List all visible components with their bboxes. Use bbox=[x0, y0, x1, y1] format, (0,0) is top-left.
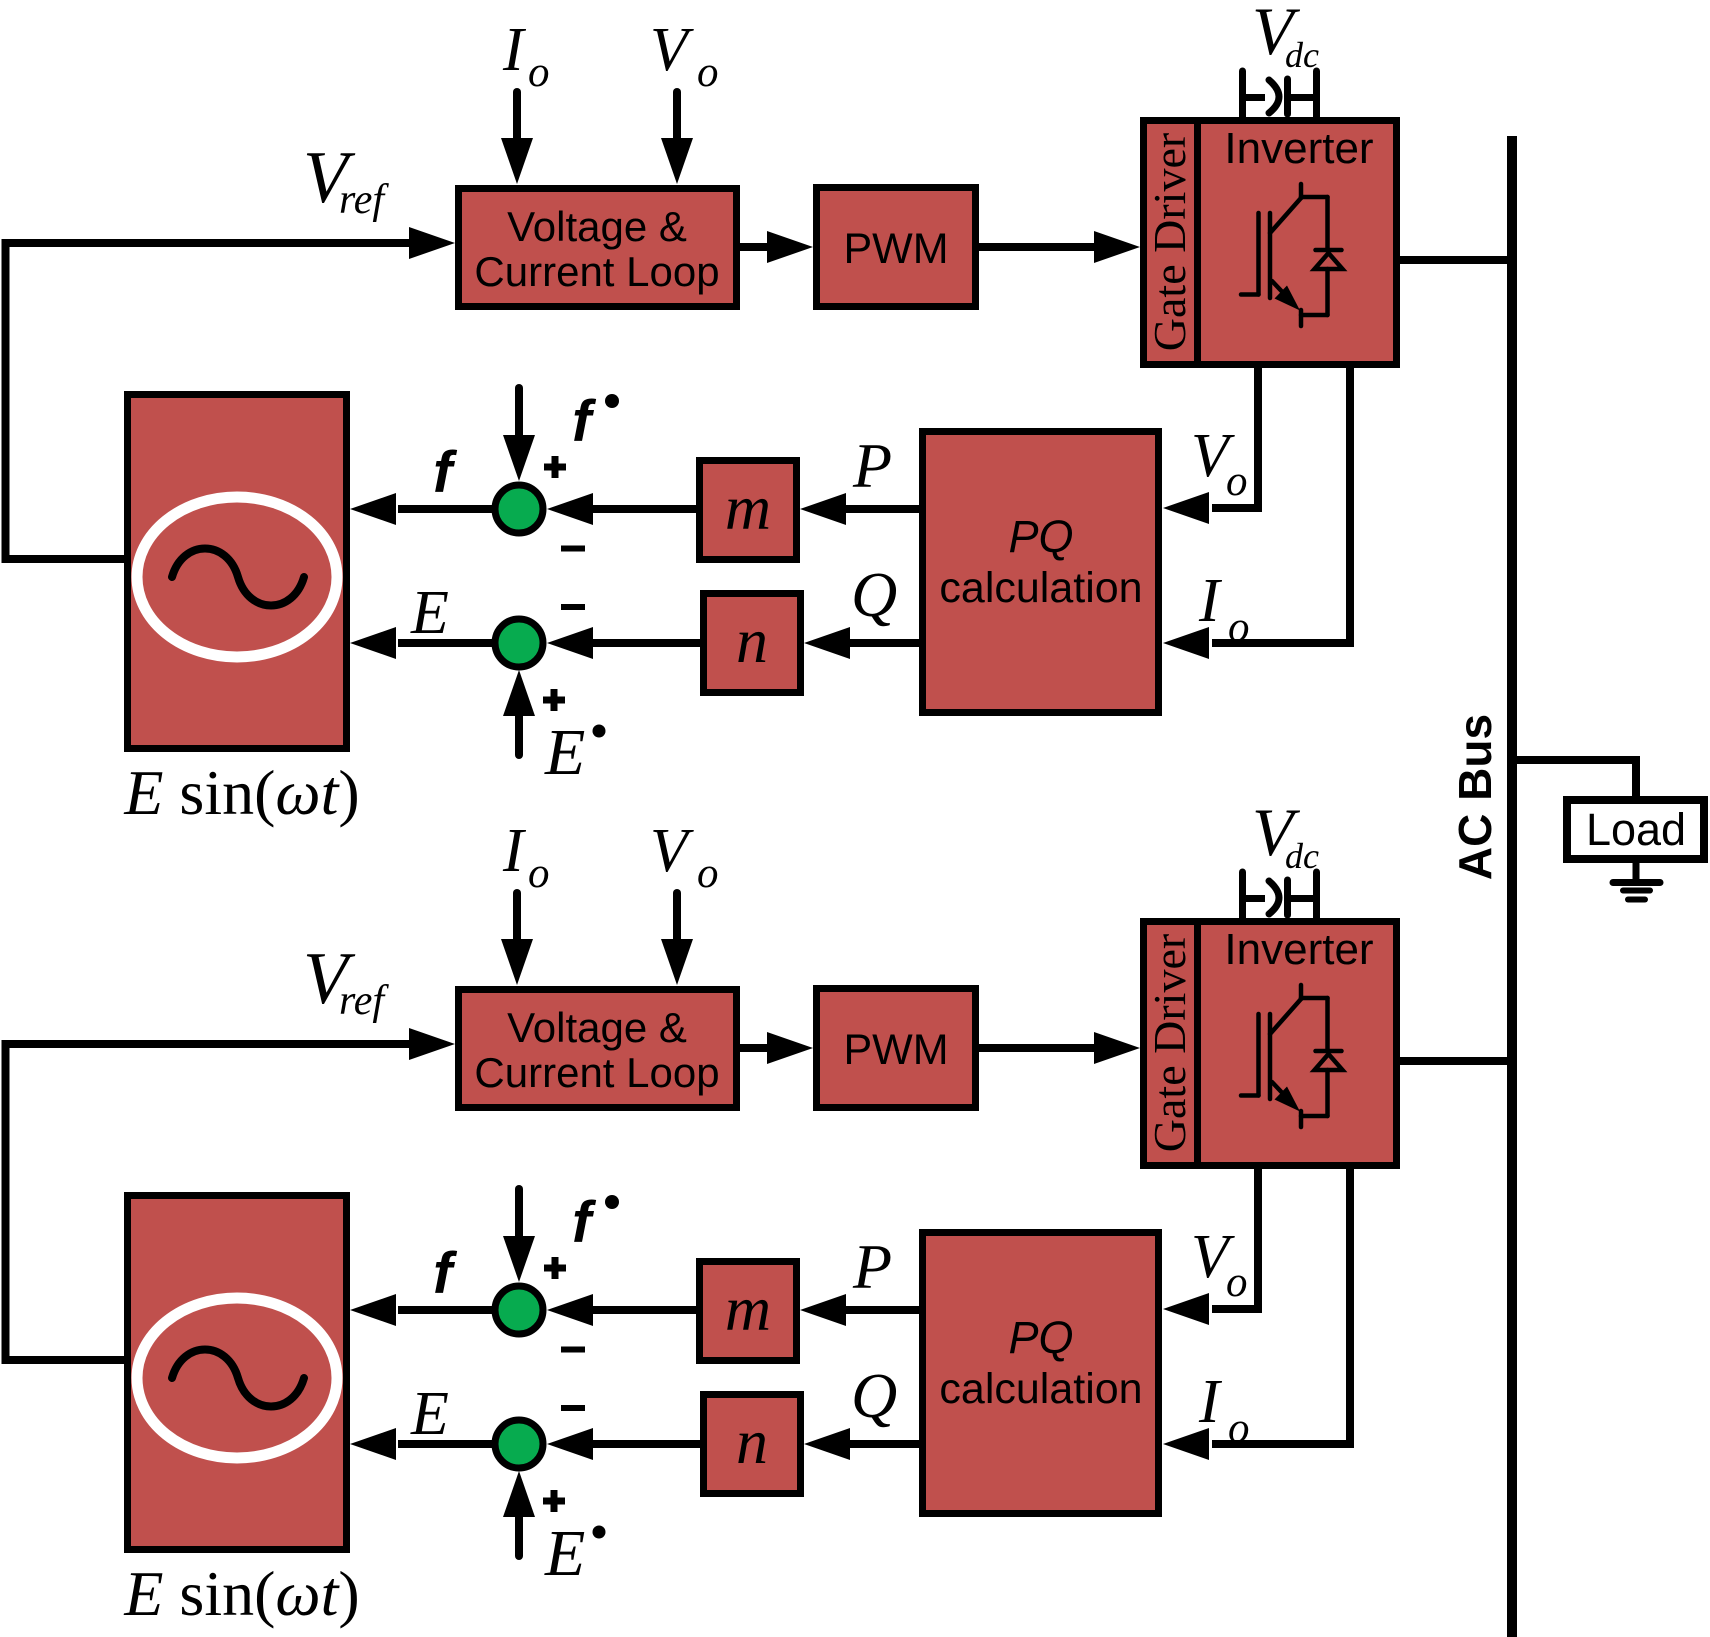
diode D2 triangle bbox=[1315, 1054, 1343, 1070]
svg-text:calculation: calculation bbox=[939, 564, 1142, 612]
plus sign at frequency summer 2 bbox=[544, 1257, 566, 1279]
wire P from PQ calculation to m (inverter 1) bbox=[845, 505, 922, 513]
arrowhead f into source block 2 bbox=[350, 1294, 396, 1326]
transistor IGBT Q2 gate lead bbox=[1241, 1093, 1259, 1098]
arrowhead E-star into summer 1 bbox=[503, 670, 535, 716]
svg-text:Current Loop: Current Loop bbox=[474, 1049, 719, 1096]
arrowhead f-star into summer 2 bbox=[503, 1236, 535, 1282]
capacitor DC link connector left (inverter 1) bbox=[1243, 94, 1266, 101]
dot of f-star (inverter 2) bbox=[605, 1195, 619, 1209]
wire Q from PQ calculation to n (inverter 2) bbox=[849, 1440, 922, 1448]
svg-text:m: m bbox=[725, 472, 771, 543]
source symbol sine wave (inverter 1) bbox=[172, 549, 304, 606]
dot of E-star (inverter 1) bbox=[593, 725, 606, 738]
wire E output to source (inverter 1) bbox=[398, 639, 492, 647]
svg-text:P: P bbox=[852, 430, 892, 501]
arrowhead Q into n 2 bbox=[804, 1428, 850, 1460]
transistor IGBT Q1 collector lead bbox=[1299, 184, 1304, 198]
svg-text:PWM: PWM bbox=[843, 1026, 948, 1074]
capacitor DC link lead right (inverter 1) bbox=[1313, 71, 1320, 118]
arrowhead into PWM 2 bbox=[767, 1032, 813, 1064]
transistor IGBT Q2 bottom link from diode bbox=[1301, 1114, 1328, 1119]
svg-text:E: E bbox=[410, 579, 449, 647]
node voltage summing junction S2B bbox=[495, 1420, 543, 1468]
minus sign at frequency summer 1 bbox=[561, 546, 585, 552]
arrowhead n output into summer 1 bbox=[547, 627, 593, 659]
transistor IGBT Q1 top link to diode bbox=[1301, 195, 1328, 200]
svg-text:Inverter: Inverter bbox=[1224, 925, 1373, 974]
diode D1 cathode bar bbox=[1316, 248, 1342, 253]
arrowhead Q into n 1 bbox=[804, 627, 850, 659]
block Inverter U1C with Gate Driver strip bbox=[1144, 121, 1397, 365]
source symbol ellipse (inverter 1) bbox=[137, 497, 337, 657]
arrowhead Vref into Voltage & Current Loop 1 bbox=[409, 227, 455, 259]
capacitor DC link straight plate (inverter 1) bbox=[1284, 79, 1291, 114]
transistor IGBT Q1 emitter arrowhead bbox=[1275, 286, 1301, 311]
source symbol sine wave (inverter 2) bbox=[172, 1350, 304, 1407]
svg-text:V: V bbox=[650, 817, 694, 885]
svg-text:I: I bbox=[502, 817, 527, 885]
transistor IGBT Q2 body bar bbox=[1268, 1014, 1273, 1099]
transistor IGBT Q1 emitter lead bbox=[1299, 310, 1304, 326]
ground stem bbox=[1633, 863, 1640, 879]
wire Io input drop (inverter 2) bbox=[513, 893, 521, 943]
wire n to voltage summing junction (inverter 1) bbox=[591, 639, 700, 647]
wire inverter 1 output to AC bus bbox=[1400, 256, 1514, 264]
wire Vref feedback loop (inverter 2) bbox=[6, 1044, 413, 1360]
block PQ calculation U2D bbox=[923, 1233, 1159, 1514]
wire Voltage loop to PWM (inverter 1) bbox=[740, 243, 770, 251]
wire E-star reference rise (inverter 2) bbox=[515, 1517, 523, 1556]
arrowhead f into source block 1 bbox=[350, 493, 396, 525]
gain block n1 bbox=[704, 594, 801, 693]
diode D2 branch upper bbox=[1325, 998, 1330, 1049]
transistor IGBT Q1 gate bar bbox=[1256, 213, 1261, 295]
arrowhead into Gate Driver 2 bbox=[1094, 1032, 1140, 1064]
wire P from PQ calculation to m (inverter 2) bbox=[845, 1306, 922, 1314]
ground bar 1 bbox=[1613, 879, 1660, 886]
wire PWM to Gate Driver (inverter 2) bbox=[979, 1044, 1096, 1052]
svg-text:o: o bbox=[1228, 1405, 1250, 1452]
svg-text:o: o bbox=[697, 49, 719, 96]
transistor IGBT Q1 body bar bbox=[1268, 213, 1273, 298]
svg-text:E sin(ωt): E sin(ωt) bbox=[123, 757, 359, 828]
wire f output to source (inverter 2) bbox=[398, 1306, 492, 1314]
svg-text:dc: dc bbox=[1285, 836, 1319, 876]
capacitor DC link straight plate (inverter 2) bbox=[1284, 880, 1291, 915]
capacitor DC link connector right (inverter 2) bbox=[1291, 895, 1317, 902]
divider Gate Driver / Inverter 1 bbox=[1194, 117, 1201, 368]
wire PWM to Gate Driver (inverter 1) bbox=[979, 243, 1096, 251]
svg-text:calculation: calculation bbox=[939, 1365, 1142, 1413]
source block E sin(wt) G2 bbox=[128, 1196, 347, 1550]
arrowhead Vo into PQ calculation 2 bbox=[1163, 1293, 1209, 1325]
transistor IGBT Q1 bottom link from diode bbox=[1301, 313, 1328, 318]
arrowhead Vo into Voltage & Current Loop 1 bbox=[661, 138, 693, 184]
arrowhead Vo into PQ calculation 1 bbox=[1163, 492, 1209, 524]
svg-text:PQ: PQ bbox=[1008, 1312, 1073, 1363]
capacitor DC link lead left (inverter 2) bbox=[1239, 872, 1246, 919]
transistor IGBT Q1 emitter diagonal bbox=[1272, 281, 1288, 298]
arrowhead E into source block 1 bbox=[350, 627, 396, 659]
wire m to frequency summing junction (inverter 1) bbox=[591, 505, 696, 513]
divider Gate Driver / Inverter 2 bbox=[1194, 918, 1201, 1169]
capacitor DC link connector left (inverter 2) bbox=[1243, 895, 1266, 902]
plus sign at frequency summer 1 bbox=[544, 456, 566, 478]
arrowhead into Gate Driver 1 bbox=[1094, 231, 1140, 263]
transistor IGBT Q2 emitter arrowhead bbox=[1275, 1087, 1301, 1112]
capacitor DC link lead right (inverter 2) bbox=[1313, 872, 1320, 919]
svg-text:dc: dc bbox=[1285, 35, 1319, 75]
diode D2 cathode bar bbox=[1316, 1049, 1342, 1054]
svg-text:Load: Load bbox=[1586, 804, 1686, 855]
svg-text:m: m bbox=[725, 1273, 771, 1344]
svg-text:AC Bus: AC Bus bbox=[1449, 714, 1501, 880]
capacitor DC link connector right (inverter 1) bbox=[1291, 94, 1317, 101]
wire m to frequency summing junction (inverter 2) bbox=[591, 1306, 696, 1314]
wire inverter 2 output to AC bus bbox=[1400, 1057, 1514, 1065]
diode D1 triangle bbox=[1315, 253, 1343, 269]
svg-text:o: o bbox=[528, 49, 550, 96]
node frequency summing junction S2A bbox=[495, 1286, 543, 1334]
svg-text:I: I bbox=[1198, 1368, 1223, 1436]
transistor IGBT Q2 gate bar bbox=[1256, 1014, 1261, 1096]
arrowhead m output into summer 1 bbox=[547, 493, 593, 525]
wire Vo sense from inverter 2 to PQ calculation bbox=[1212, 1165, 1258, 1309]
svg-text:Voltage &: Voltage & bbox=[507, 203, 687, 250]
transistor IGBT Q2 emitter lead bbox=[1299, 1111, 1304, 1127]
wire Vo input drop (inverter 1) bbox=[673, 92, 681, 142]
wire Vo sense from inverter 1 to PQ calculation bbox=[1212, 364, 1258, 508]
svg-text:n: n bbox=[736, 1406, 768, 1477]
wire f-star reference drop (inverter 1) bbox=[515, 388, 523, 437]
dot of f-star (inverter 1) bbox=[605, 394, 619, 408]
svg-text:P: P bbox=[852, 1231, 892, 1302]
transistor IGBT Q1 collector diagonal bbox=[1270, 198, 1301, 233]
block Voltage & Current Loop U2A bbox=[459, 990, 737, 1108]
wire Voltage loop to PWM (inverter 2) bbox=[740, 1044, 770, 1052]
transistor IGBT Q2 collector lead bbox=[1299, 985, 1304, 999]
svg-text:E sin(ωt): E sin(ωt) bbox=[123, 1558, 359, 1629]
svg-text:I: I bbox=[502, 16, 527, 84]
net AC Bus vertical line bbox=[1507, 136, 1517, 1637]
arrowhead f-star into summer 1 bbox=[503, 435, 535, 481]
capacitor DC link curved plate (inverter 1) bbox=[1269, 80, 1279, 113]
ground bar 2 bbox=[1623, 888, 1650, 894]
arrowhead P into m 2 bbox=[800, 1294, 846, 1326]
plus sign at voltage summer 2 bbox=[543, 1490, 565, 1512]
minus sign at voltage summer 1 bbox=[561, 604, 585, 610]
transistor IGBT Q1 gate lead bbox=[1241, 292, 1259, 297]
gain block m1 bbox=[700, 461, 797, 560]
wire Io sense from inverter 1 to PQ calculation bbox=[1212, 364, 1350, 643]
wire E-star reference rise (inverter 1) bbox=[515, 716, 523, 755]
transistor IGBT Q2 emitter diagonal bbox=[1272, 1082, 1288, 1099]
arrowhead Vref into Voltage & Current Loop 2 bbox=[409, 1028, 455, 1060]
svg-text:PWM: PWM bbox=[843, 225, 948, 273]
svg-text:Gate Driver: Gate Driver bbox=[1144, 133, 1195, 351]
load block RL bbox=[1567, 800, 1704, 859]
block Voltage & Current Loop U1A bbox=[459, 189, 737, 307]
dot of E-star (inverter 2) bbox=[593, 1526, 606, 1539]
arrowhead P into m 1 bbox=[800, 493, 846, 525]
wire Io input drop (inverter 1) bbox=[513, 92, 521, 142]
arrowhead E-star into summer 2 bbox=[503, 1471, 535, 1517]
diode D1 branch upper bbox=[1325, 197, 1330, 248]
block PWM U2B bbox=[817, 989, 976, 1108]
block PWM U1B bbox=[817, 188, 976, 307]
wire Vref feedback loop (inverter 1) bbox=[6, 243, 413, 559]
svg-text:E: E bbox=[410, 1380, 449, 1448]
wire E output to source (inverter 2) bbox=[398, 1440, 492, 1448]
svg-text:Inverter: Inverter bbox=[1224, 124, 1373, 173]
block Inverter U2C with Gate Driver strip bbox=[1144, 922, 1397, 1166]
svg-text:E: E bbox=[544, 1517, 585, 1590]
plus sign at voltage summer 1 bbox=[543, 689, 565, 711]
svg-text:o: o bbox=[1226, 1259, 1248, 1306]
svg-text:Q: Q bbox=[851, 1360, 897, 1431]
arrowhead Io into Voltage & Current Loop 1 bbox=[501, 138, 533, 184]
wire Io sense from inverter 2 to PQ calculation bbox=[1212, 1165, 1350, 1444]
node frequency summing junction S1A bbox=[495, 485, 543, 533]
diode D1 branch lower bbox=[1325, 269, 1330, 315]
svg-text:o: o bbox=[1226, 458, 1248, 505]
block PQ calculation U1D bbox=[923, 432, 1159, 713]
wire Q from PQ calculation to n (inverter 1) bbox=[849, 639, 922, 647]
arrowhead Vo into Voltage & Current Loop 2 bbox=[661, 939, 693, 985]
arrowhead Io into PQ calculation 2 bbox=[1163, 1428, 1209, 1460]
svg-text:Q: Q bbox=[851, 559, 897, 630]
svg-text:I: I bbox=[1198, 567, 1223, 635]
minus sign at voltage summer 2 bbox=[561, 1405, 585, 1411]
ground bar 3 bbox=[1628, 897, 1645, 903]
gain block n2 bbox=[704, 1395, 801, 1494]
svg-text:E: E bbox=[544, 716, 585, 789]
svg-text:n: n bbox=[736, 605, 768, 676]
transistor IGBT Q2 top link to diode bbox=[1301, 996, 1328, 1001]
wire f output to source (inverter 1) bbox=[398, 505, 492, 513]
source block E sin(wt) G1 bbox=[128, 395, 347, 749]
minus sign at frequency summer 2 bbox=[561, 1347, 585, 1353]
svg-text:o: o bbox=[528, 850, 550, 897]
svg-text:o: o bbox=[697, 850, 719, 897]
diode D2 branch lower bbox=[1325, 1070, 1330, 1116]
arrowhead n output into summer 2 bbox=[547, 1428, 593, 1460]
svg-text:Current Loop: Current Loop bbox=[474, 248, 719, 295]
arrowhead into PWM 1 bbox=[767, 231, 813, 263]
arrowhead m output into summer 2 bbox=[547, 1294, 593, 1326]
wire AC bus to Load bbox=[1512, 760, 1636, 800]
source symbol ellipse (inverter 2) bbox=[137, 1298, 337, 1458]
svg-text:PQ: PQ bbox=[1008, 511, 1073, 562]
node voltage summing junction S1B bbox=[495, 619, 543, 667]
arrowhead Io into Voltage & Current Loop 2 bbox=[501, 939, 533, 985]
arrowhead E into source block 2 bbox=[350, 1428, 396, 1460]
svg-text:ref: ref bbox=[339, 978, 389, 1024]
svg-text:ref: ref bbox=[339, 177, 389, 223]
arrowhead Io into PQ calculation 1 bbox=[1163, 627, 1209, 659]
capacitor DC link lead left (inverter 1) bbox=[1239, 71, 1246, 118]
capacitor DC link curved plate (inverter 2) bbox=[1269, 881, 1279, 914]
wire f-star reference drop (inverter 2) bbox=[515, 1189, 523, 1238]
svg-text:o: o bbox=[1228, 604, 1250, 651]
wire Vo input drop (inverter 2) bbox=[673, 893, 681, 943]
svg-text:Voltage &: Voltage & bbox=[507, 1004, 687, 1051]
svg-text:Gate Driver: Gate Driver bbox=[1144, 934, 1195, 1152]
wire n to voltage summing junction (inverter 2) bbox=[591, 1440, 700, 1448]
transistor IGBT Q2 collector diagonal bbox=[1270, 999, 1301, 1034]
svg-text:V: V bbox=[650, 16, 694, 84]
gain block m2 bbox=[700, 1262, 797, 1361]
